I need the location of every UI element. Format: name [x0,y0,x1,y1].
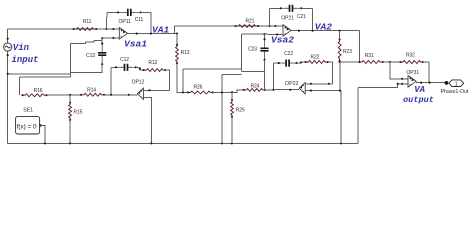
wire C22 to R22 link [297,62,306,63]
wire R16 to R14 [47,94,82,96]
junction dot W1 bottom [182,91,184,93]
wire VA1 riser to stage2 [173,26,175,34]
svg-text:R32: R32 [406,53,415,59]
svg-text:R11: R11 [83,19,92,25]
wire C23 column to R24 right pin [264,72,266,90]
wire C21 feedback right riser [312,8,314,30]
svg-text:R23: R23 [343,49,352,55]
junction dot OP22 lower node [339,90,341,92]
svg-text:R24: R24 [250,84,259,90]
svg-text:R22: R22 [310,54,319,60]
svg-text:C23: C23 [248,46,257,52]
capacitor C12 [115,57,137,71]
wire OP22 lower drop to rail [340,91,342,144]
svg-text:f(x) = 0: f(x) = 0 [17,124,37,131]
wire C11 feedback right riser [150,12,152,33]
wire OP22 upper input [305,83,332,85]
wire jog vertical [70,43,72,76]
wire VA output node [416,82,444,84]
wire OP12 upper input [143,89,169,91]
wire R22 right corner down [328,62,333,84]
junction dots OP22 output row [272,89,291,91]
svg-text:VA2: VA2 [315,21,333,32]
junction dot OP31 input tap [389,61,391,63]
wire R13 top lead [176,34,178,45]
wire W1 vertical [182,69,184,93]
wire R25 to rail [231,117,233,143]
pin dots OP31 lower input [397,83,404,85]
wire rail branch to C13 column [8,73,71,75]
svg-text:R15: R15 [73,109,82,115]
wire C12 left corner [111,66,116,68]
svg-text:R16: R16 [34,88,43,94]
wire C12 to R12 link [136,67,144,70]
wire OP21 inverting input [242,33,283,35]
wire R16 left riser [18,77,20,95]
output connector Phase1-Out [441,80,469,95]
wire R12 right corner down [165,70,169,90]
wire OP31 lower input feed [358,84,408,88]
svg-text:R14: R14 [87,88,96,94]
svg-text:OP21: OP21 [281,16,294,22]
svg-text:C22: C22 [284,51,293,57]
junction dots on output wire [420,82,431,84]
wire W2 horizontal [222,74,242,76]
wire R15 top lead [69,95,71,103]
wire OP31 upper input feed [390,62,408,79]
op-amp OP11 [119,28,127,40]
svg-text:R12: R12 [148,60,157,66]
capacitor C22 [278,51,298,67]
svg-text:1: 1 [455,81,458,87]
wire OP12 output row [104,94,137,96]
junction dots at OP11 + input [105,28,114,30]
wire ground riser right [357,88,359,144]
junction dot C22-R22 [300,61,302,63]
svg-text:C11: C11 [135,17,144,23]
wire C11 feedback left riser [105,12,108,29]
svg-text:C21: C21 [297,14,306,20]
junction dots between R26 and R24 [221,91,233,93]
wire R16 upper link [19,76,70,78]
capacitor C21 [280,5,306,20]
wire OP12 lower input to rail [143,97,151,143]
pin dot OP31 upper input [401,78,403,80]
svg-text:R25: R25 [236,107,245,113]
svg-text:Vsa1: Vsa1 [124,38,147,49]
junction dots on VA1 wire [136,33,178,35]
wire C23 bottom corner [264,60,266,72]
svg-text:R31: R31 [365,53,374,59]
resistor R13 [176,44,190,65]
op-amp OP22 [299,83,305,94]
voltage source Vin [4,38,12,57]
wire OP22 output row [265,88,299,91]
pin dot OP12 upper input [148,89,150,91]
wire stage2 top row [174,25,283,27]
junction dots on bottom rail [44,142,342,144]
wire left rail (Vin column) [7,29,9,143]
resistor R24 [243,84,266,92]
resistor R15 [69,101,83,121]
wire R13 bottom to R26 [177,63,188,92]
svg-text:VA: VA [414,85,425,95]
wire SE1 output to rail [41,126,45,144]
junction dots OP12 output row [110,94,130,96]
wire W2 vertical [221,75,223,144]
resistor R25 [231,99,245,118]
resistor R22 [305,54,329,63]
wire R23 to R31 [340,61,360,63]
wire C22 left vertical down [272,63,274,90]
wire stage2 low link right [242,71,265,73]
svg-text:OP22: OP22 [285,81,299,87]
wire R15 to rail [69,120,71,143]
wire VA2 corner down to R31 [359,31,361,62]
svg-text:Phase1-Out: Phase1-Out [441,89,469,95]
wire R31 to R32 [383,61,401,63]
junction dot on left rail [7,73,9,75]
wire VA2 node [291,30,359,32]
svg-text:OP12: OP12 [132,79,145,85]
capacitor C13 [86,43,106,66]
svg-text:C13: C13 [86,53,95,59]
svg-text:output: output [403,95,434,105]
source block SE1 [16,107,42,134]
resistor R16 [21,88,47,97]
resistor R23 [338,38,352,62]
svg-text:input: input [12,55,39,65]
wire C11 feedback top right [141,11,151,13]
junction dots at OP21 + input [268,25,276,27]
wire C21 feedback top left [269,7,280,9]
resistor R11 [73,19,98,30]
wire top input row to OP11 [8,28,120,30]
wire C13 top lead [101,38,103,43]
svg-text:R26: R26 [193,84,202,90]
pin dots OP22 upper input [310,83,330,85]
wire C22 left corner [273,62,278,64]
junction dot R23 bottom [339,61,341,63]
wire C21 feedback top right [301,7,312,9]
resistor R26 [187,84,214,94]
pin dots OP21 inverting input [263,33,278,35]
wire R26 to R24 [213,90,244,93]
resistor R32 [399,53,424,64]
resistor R21 [235,18,260,27]
capacitor C11 [117,9,144,23]
svg-text:R13: R13 [181,50,190,56]
resistor R12 [143,60,167,71]
wire C12 left vertical down [110,67,112,95]
capacitor C23 [248,38,269,61]
op-amp OP12 [137,88,143,99]
junction dots on VA2 wire [298,30,341,32]
svg-text:VA1: VA1 [152,25,170,36]
wire OP11 inverting input [102,37,119,39]
svg-text:SE1: SE1 [23,107,33,113]
wire stage2 low link [183,68,242,70]
wire C13 bottom to rail branch [71,64,103,72]
op-amp OP31 [408,76,416,88]
resistor R14 [80,88,105,97]
wire R25 top lead [231,92,233,100]
wire C23 top lead [264,34,266,39]
wire C21 feedback left riser [268,8,270,26]
wire R23 top lead [339,31,341,40]
wire R32 right corner down [423,62,429,83]
wire bottom rail [8,142,359,144]
wire C11 feedback top left [107,11,118,13]
resistor R31 [358,53,384,64]
svg-text:Vin: Vin [13,43,30,53]
wire VA1 node [128,33,178,35]
wire stage2 link jog vertical [241,34,243,71]
svg-text:R21: R21 [245,18,254,24]
wire OP22 lower riser to R23 node [339,62,341,91]
op-amp OP21 [283,25,291,37]
svg-text:C12: C12 [120,57,129,63]
svg-text:OP31: OP31 [406,70,419,76]
wire inverting-node jog [71,40,103,43]
svg-text:Vsa2: Vsa2 [271,35,294,46]
junction dot R15 top [69,94,71,96]
junction dot C12-R12 [139,68,141,70]
pin dots OP11 inverting input [101,37,114,39]
wire OP22 lower input [305,90,341,92]
svg-text:OP11: OP11 [119,19,132,25]
pin dot OP22 lower input [310,90,312,92]
